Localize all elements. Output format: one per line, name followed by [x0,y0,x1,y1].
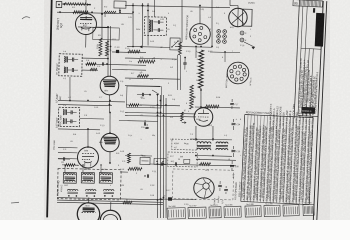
wire arrow small [152,90,159,94]
resistor R20 [178,42,181,55]
shield box outline [127,86,162,108]
capacitor C25 [231,149,235,151]
wire h58 left [82,57,108,60]
ant coil lower 1 [67,189,78,191]
capacitor C28 [224,188,228,190]
ant coil lower 3 [103,189,114,191]
wire arrow to line [244,42,255,47]
wire h107 [195,106,240,109]
title strip divider 2 [302,6,307,116]
wire v88 [87,129,90,147]
wire grid cap lead [104,12,106,17]
resistor R2 [73,11,88,14]
resistor R23 [128,167,142,170]
resistor R21 [90,68,97,71]
wires to top edge [85,0,88,13]
wire h104 [58,105,112,106]
junction bus dots [157,112,159,114]
tube V6 rectifier [110,202,112,210]
junction dots pass [107,26,109,28]
wire v154 top [153,0,156,17]
wire h129 [58,128,100,131]
wire mid h64 [85,64,146,65]
wire antenna top [62,3,90,6]
capacitor C31 [146,174,148,177]
stock card box 8 [303,204,314,215]
wire gang drop 1 [64,165,66,173]
wire vertical pair a [107,26,109,76]
wire top bus [57,12,133,14]
wire grid lead V1 [96,26,108,28]
pilot lamp pins [217,30,221,34]
wire bottom bus 1 [57,198,163,200]
wire rect top [230,4,238,6]
wire h199 [160,198,196,201]
wire h46 with arrow [127,45,170,48]
wire V2 bottom [108,95,111,112]
wire h155 [195,155,232,158]
wire gang right [120,171,128,173]
osc coil upper 3 [99,173,112,184]
tube V1 2nd-det 6Q7 [75,13,96,34]
stray pen mark dash [11,201,19,204]
wire v196b [195,126,198,141]
resistor R3 500K [99,38,102,56]
parts table column lines [241,114,245,201]
IF transformer T3 can [58,107,79,126]
tube socket X2 bottom view [227,62,249,84]
IF T2 coil primary [64,56,65,62]
wire h52 right [210,51,240,54]
wire v212 [211,28,214,47]
resistor R18 [199,163,210,166]
stock card box 5 [245,206,261,217]
wire h155 left [125,154,152,157]
wire h105 [140,104,180,107]
wire center bus v2 [158,95,163,218]
title strip bottom line [298,115,318,118]
parts table frame [245,114,313,117]
wire vertical pair b [109,26,111,76]
stock card box 4 [224,206,241,217]
resistor R16 [181,112,184,121]
ballast resistor R14 [198,50,203,88]
wire grid left [78,26,96,28]
wire center bus v1 [155,95,160,218]
wire T4 left 1 [58,146,77,148]
junction center top [132,5,134,7]
wire center vertical 3 [147,3,149,46]
sheet right border outer [317,1,327,221]
wire h58 [125,58,177,59]
scan tone overlay [44,0,330,220]
wire plate lead V1 [85,12,87,15]
wire h164 [150,164,236,166]
output transformer T5 [197,142,211,144]
title strip divider 3 [306,48,309,116]
IF T3 coil secondary [62,118,65,124]
capacitor C16b [145,126,148,128]
title strip left edge [294,0,299,118]
resistor R19 [168,197,172,200]
stock card box 2 [188,207,206,218]
resistor R8 [65,164,75,167]
tube V7 rectifier 25Z6 [229,8,248,27]
socket strip box A [172,139,197,150]
wire V3 bottom [109,152,111,163]
kc ruler scale [293,0,323,7]
wire center bus v3 [161,95,166,218]
IF transformer T4 can [144,17,166,36]
capacitor C15 [141,93,143,96]
tube V3 1st IF [101,133,120,152]
wire branch x102 [101,14,102,38]
wire h70 left [82,69,98,71]
wire socket top lead [224,52,226,62]
ant coil lower 2 [85,189,96,191]
resistor R1 [64,2,86,5]
resistor R5 [128,50,140,53]
IF T4 coil [149,20,150,32]
stock card box 6 [264,205,280,216]
capacitor C8 [62,157,64,160]
terminal box B [154,158,166,164]
scan noise texture [0,0,1,1]
sheet left border [47,0,52,217]
capacitor C30 [174,162,176,165]
osc coil upper 2 [81,172,94,183]
capacitor C26 [230,164,234,166]
wire gang drop 2 [82,165,84,173]
switch S1 box [170,38,180,50]
capacitor box C11 [114,1,126,8]
loudspeaker LS1 [194,178,215,199]
wire h115 [125,115,196,116]
filter choke L1 [216,142,228,144]
pin P1 [240,31,244,35]
IF T3 coil primary [62,109,65,115]
stray pen mark arc [22,17,30,19]
IF T4 trimmer C9 [157,20,159,24]
capacitor C24 [232,122,236,124]
resistor R4 2MEG [105,41,108,56]
wire h159 [196,158,236,161]
wire v196 short [195,47,197,59]
capacitor C5 [101,62,103,65]
sheet right border inner [313,1,323,221]
wire h120 [119,120,158,123]
stock card box 3 [209,207,221,218]
wire h112 [125,112,196,113]
IF T4 trimmer C10 [157,28,159,32]
wire top long [125,6,230,8]
wire cathode lead V1 [85,35,87,48]
table header block [301,107,315,114]
capacitor C13 [116,50,119,53]
stock card box 1 [167,208,185,219]
junction dots pass2 [132,11,134,13]
tube V2 IF amp 6K7 [100,76,119,95]
wire h78 [125,78,180,79]
resistor R10 [123,201,132,204]
wire loop box [93,27,120,40]
wire mid h52 [112,51,146,54]
wire v180 [180,55,182,90]
wire h118 [80,118,104,121]
wire h100 [58,101,125,102]
title strip divider h48 [301,47,321,50]
capacitor C16 [143,122,145,125]
wire center vertical 2 [142,3,144,46]
capacitor C29 [160,162,162,165]
IF transformer T2 can [59,54,82,76]
wire v213 [212,126,215,141]
tube V5 output [88,198,90,203]
wire bottom bus 3 [57,202,163,204]
wire h139 [190,138,232,141]
resistor R11 2MEG [138,60,155,63]
title strip divider 4 [310,49,313,117]
resistor R17 [205,105,219,108]
speaker dashed box [172,169,233,200]
wire v70 [68,77,71,101]
tube socket X1 top view [189,23,210,44]
capacitor C27 [218,184,222,186]
wire bottom bus 2 [57,200,163,202]
osc coil upper 1 [63,172,76,183]
resistor R2b [104,11,116,13]
wire ballast bottom [200,88,203,107]
IF T2 coil secondary [64,67,65,73]
pin P2 [240,38,244,42]
title strip divider 1 [298,6,303,116]
wire center bus v4 [164,98,169,218]
wire v177 [177,55,179,90]
wire mid h69 [112,68,146,71]
wire h46 right [175,45,212,48]
tube V4 1st det osc 6A8 [77,147,98,168]
black index tab [315,13,325,47]
terminal box A [140,157,150,164]
tube V8 6F6 output [194,108,213,127]
capacitor C17 [230,102,234,104]
junction dots top [59,11,61,13]
wire V3 top [109,112,112,133]
capacitor C14 [183,62,186,64]
wire h85 [125,85,160,88]
wire T4 left 2 [58,151,77,153]
stock card box 7 [283,205,299,216]
tube V5 electrodes [83,207,95,209]
wire gang drop 3 [100,165,102,173]
small dark cell [313,8,315,13]
wire center vertical 1 [132,3,134,46]
socket strip box B [168,152,198,167]
gang condenser box [57,168,121,200]
wire socket X1 top lead [199,6,202,25]
volume control R13 [190,85,194,109]
wire T4 left 3 [58,157,77,159]
resistor R22 [127,153,130,163]
resistor R15 [129,104,139,107]
resistor R12 1MEG [137,75,148,78]
resistor R6 [86,63,96,66]
antenna jack box [56,1,62,7]
